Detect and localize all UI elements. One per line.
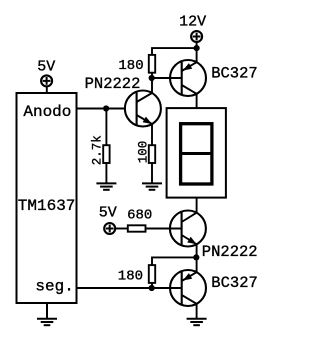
svg-text:180: 180 — [118, 268, 143, 284]
wire 5V terminal to TM1637 top — [46, 86, 48, 93]
node junction Q3 emitter/R180/Q4 emitter — [193, 254, 199, 260]
transistor Q4 BC327 (PNP, bottom) — [170, 270, 206, 306]
wire R 180 bottom to seg node — [151, 283, 153, 288]
svg-text:2.7k: 2.7k — [91, 135, 105, 165]
svg-text:TM1637: TM1637 — [18, 197, 76, 215]
wire junction down to R 2.7k — [105, 109, 107, 146]
wire Q1 collector up to 180 node — [151, 78, 153, 93]
svg-text:5V: 5V — [99, 204, 117, 221]
ground under 2.7k — [96, 183, 116, 189]
wire 12V terminal to rail node — [196, 42, 198, 48]
wire Anodo net (box to Q1 base) — [77, 108, 125, 110]
wire R 2.7k to ground — [105, 163, 107, 183]
ground under TM1637 — [37, 303, 57, 325]
svg-text:PN2222: PN2222 — [85, 75, 141, 93]
wire seg. net (box to Q4 base) — [77, 287, 182, 289]
wire Q2 collector to display top — [196, 94, 198, 108]
svg-text:180: 180 — [118, 58, 143, 74]
svg-text:680: 680 — [127, 208, 152, 224]
wire Q4 collector to ground — [196, 304, 198, 319]
transistor Q2 BC327 (PNP, top) — [170, 60, 206, 96]
power terminal 12V — [191, 31, 202, 42]
node junction 180/Q1 collector/Q2 base — [149, 75, 155, 81]
svg-text:BC327: BC327 — [211, 64, 258, 82]
svg-text:5V: 5V — [37, 59, 55, 76]
wire 12V rail to Q2 emitter — [196, 48, 198, 62]
wire R 180 to node — [151, 73, 153, 78]
resistor R 680 — [128, 225, 146, 231]
ground under 100 — [142, 183, 162, 189]
wire node to R 180 bottom — [152, 257, 197, 265]
IC U1 TM1637 box — [17, 93, 77, 303]
wire node to Q4 emitter — [196, 257, 198, 272]
node junction seg/R180 — [149, 285, 155, 291]
wire Q3 emitter to node — [196, 244, 198, 257]
node 12V rail — [194, 45, 200, 51]
7-segment display digit 8 — [181, 124, 212, 184]
svg-text:12V: 12V — [179, 14, 206, 31]
resistor R 180 (top) — [149, 55, 155, 73]
svg-text:Anodo: Anodo — [23, 103, 71, 121]
wire node to Q2 base — [152, 77, 182, 79]
wire Q1 emitter down to R 100 — [151, 124, 153, 145]
7-segment display box — [167, 108, 226, 198]
wire R 680 to Q3 base — [146, 228, 182, 230]
svg-text:PN2222: PN2222 — [202, 243, 258, 261]
wire R 100 to ground — [151, 163, 153, 183]
svg-text:seg.: seg. — [35, 277, 73, 295]
power terminal 5V (mid) — [104, 223, 115, 234]
wire 5V terminal to R 680 — [115, 228, 128, 230]
svg-text:BC327: BC327 — [211, 274, 258, 292]
node junction Anodo/2.7k — [103, 105, 109, 111]
ground under Q4 — [187, 319, 207, 325]
wire 12V rail to R 180 top — [152, 48, 197, 55]
transistor Q3 PN2222 (NPN, mid) — [170, 211, 206, 247]
resistor R 2.7k — [103, 145, 109, 163]
resistor R 180 (bottom) — [149, 265, 155, 283]
wire display bottom to Q3 collector — [196, 198, 198, 213]
resistor R 100 — [149, 145, 155, 163]
power terminal 5V (top left) — [41, 75, 52, 86]
svg-text:100: 100 — [136, 141, 150, 164]
transistor Q1 PN2222 (NPN, top) — [125, 91, 161, 127]
